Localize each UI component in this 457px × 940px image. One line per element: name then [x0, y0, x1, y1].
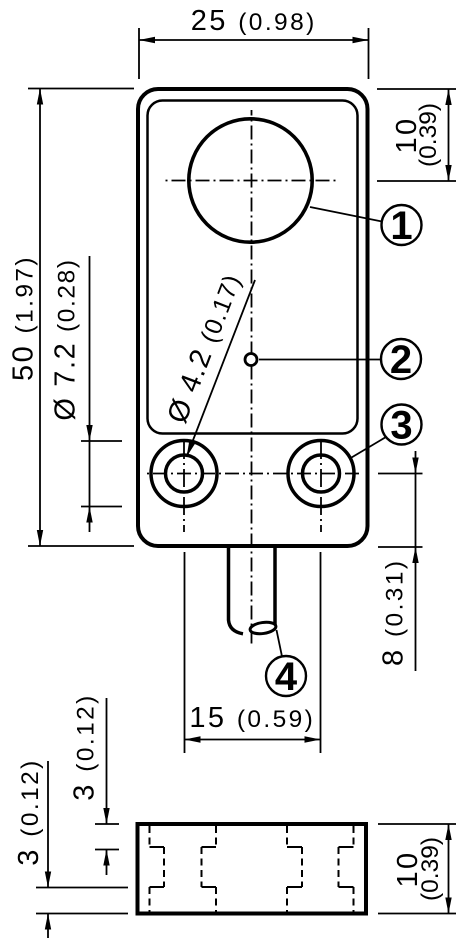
hidden line: right hole outer right lower	[353, 887, 355, 912]
dimension 25 (0.98): extension line left	[138, 28, 140, 79]
hidden line: right hole outer left upper	[286, 826, 288, 847]
svg-text:Ø 4.2 (0.17): Ø 4.2 (0.17)	[161, 269, 247, 427]
svg-text:4: 4	[275, 655, 298, 699]
callout 1: leader	[310, 207, 382, 222]
svg-text:Ø 7.2 (0.28): Ø 7.2 (0.28)	[50, 258, 82, 420]
dimension dia 7.2 (0.28): tick top	[81, 440, 122, 442]
dimension 25 (0.98): arrow right	[353, 37, 369, 43]
hidden line: left hole outer left lower	[149, 887, 151, 912]
dimension 8 (0.31): dimension line	[415, 451, 417, 671]
dimension 3 (0.12) outer: tick top	[36, 887, 128, 889]
dimension 10 (0.39) bottom right: extension line top	[378, 823, 456, 825]
svg-text:8 (0.31): 8 (0.31)	[378, 559, 410, 666]
dimension dia 7.2 (0.28): tick bottom	[81, 506, 122, 508]
dimension 50 (1.97): arrow bottom	[37, 530, 43, 546]
dimension 15 (0.59): extension line left	[184, 552, 186, 753]
dimension 50 (1.97): dimension line	[39, 89, 41, 547]
dimension 3 (0.12) outer: dimension line lower	[47, 914, 49, 939]
hidden line: right hole step bottom right	[339, 886, 354, 888]
callout 4: circle	[266, 656, 306, 696]
hidden line: left hole outer left upper	[149, 826, 151, 847]
dimension 10 (0.39) bottom right: arrow bottom	[445, 898, 451, 914]
side view body rectangle	[138, 824, 367, 914]
dimension 3 (0.12) outer: tick bottom	[36, 913, 128, 915]
hidden line: left hole step bottom right	[202, 886, 217, 888]
centerline vertical (left hole)	[183, 441, 185, 532]
callout 2: leader	[259, 359, 381, 361]
label dia 4.2 (0.17): leader line	[187, 280, 256, 457]
svg-text:50 (1.97): 50 (1.97)	[8, 255, 40, 381]
dimension 15 (0.59): dimension line	[185, 739, 321, 741]
dimension 8 (0.31): tick bottom	[378, 546, 423, 548]
dimension 15 (0.59): arrow right	[305, 736, 321, 742]
hidden line: left hole step top right	[202, 846, 217, 848]
hidden line: right hole outer right upper	[353, 826, 355, 847]
hidden line: right hole step bottom left	[287, 886, 302, 888]
dimension 10 (0.39) top right: arrow bottom	[445, 165, 451, 181]
dimension 10 (0.39) top right: dimension line	[448, 89, 450, 181]
body inner outline	[148, 101, 358, 434]
hidden line: left hole outer right lower	[215, 887, 217, 912]
dimension dia 7.2 (0.28): dimension line upper	[89, 256, 91, 441]
svg-text:(0.39): (0.39)	[415, 103, 442, 167]
svg-text:(0.39): (0.39)	[417, 837, 444, 901]
dimension 10 (0.39) top right: extension line bottom	[377, 180, 456, 182]
dimension 25 (0.98): dimension line	[139, 39, 369, 41]
hidden line: left hole step bottom left	[150, 886, 165, 888]
dimension 3 (0.12) inner: tick top	[95, 823, 119, 825]
dimension 10 (0.39) top right: extension line top	[377, 88, 456, 90]
hidden line: right hole outer left lower	[286, 887, 288, 912]
callout 3: leader	[349, 437, 386, 459]
sensing face circle	[189, 119, 312, 242]
cable end ellipse	[249, 621, 276, 636]
svg-text:3: 3	[390, 404, 412, 448]
dimension dia 7.2 (0.28): arrow down	[86, 425, 92, 441]
LED hole (small circle)	[245, 354, 257, 366]
dimension 10 (0.39) bottom right: arrow top	[445, 824, 451, 840]
svg-text:25 (0.98): 25 (0.98)	[191, 5, 317, 37]
hidden line: left hole outer right upper	[215, 826, 217, 847]
callout 2: circle	[381, 339, 421, 379]
dimension 3 (0.12) inner: dimension line lower	[106, 850, 108, 876]
dimension 3 (0.12) outer: arrow down	[45, 872, 51, 888]
hidden line: right hole step top left	[287, 846, 302, 848]
centerline horizontal (mounting holes)	[143, 473, 363, 475]
dimension 50 (1.97): extension line top	[28, 88, 134, 90]
body outline (outer)	[138, 89, 368, 546]
dimension 15 (0.59): arrow left	[185, 736, 201, 742]
hidden line: left hole inner left	[163, 847, 165, 887]
dimension 3 (0.12) inner: tick bottom	[95, 849, 119, 851]
svg-text:3 (0.12): 3 (0.12)	[13, 758, 45, 865]
dimension 25 (0.98): arrow left	[139, 37, 155, 43]
cable left edge	[229, 548, 244, 634]
dimension 3 (0.12) inner: dimension line upper	[106, 698, 108, 824]
dimension 10 (0.39) bottom right: extension line bottom	[378, 913, 456, 915]
mounting hole left inner	[166, 455, 203, 492]
svg-text:2: 2	[390, 338, 412, 382]
dimension 50 (1.97): arrow top	[37, 89, 43, 105]
dimension 25 (0.98): extension line right	[368, 28, 370, 79]
cable right edge	[273, 548, 277, 625]
mounting hole right inner	[303, 455, 340, 492]
hidden line: left hole inner right	[201, 847, 203, 887]
centerline vertical (right hole)	[320, 441, 322, 532]
dimension 3 (0.12) inner: arrow down	[103, 808, 109, 824]
svg-text:3 (0.12): 3 (0.12)	[69, 693, 101, 800]
dimension 10 (0.39) bottom right: dimension line	[448, 824, 450, 914]
callout 1: circle	[382, 205, 422, 245]
mounting hole right outer	[288, 441, 354, 507]
centerline horizontal (sensing face circle)	[164, 180, 339, 182]
dimension 8 (0.31): arrow down	[412, 458, 418, 474]
hidden line: right hole inner right	[338, 847, 340, 887]
hidden line: right hole inner left	[301, 847, 303, 887]
svg-text:15 (0.59): 15 (0.59)	[189, 702, 315, 734]
svg-text:1: 1	[390, 204, 412, 248]
callout 4: leader	[277, 630, 283, 656]
label dia 4.2 (0.17): arrowhead	[187, 441, 196, 457]
dimension dia 7.2 (0.28): arrow up	[86, 507, 92, 523]
dimension 3 (0.12) inner: arrow up	[103, 850, 109, 866]
callout 3: circle	[382, 405, 422, 445]
dimension 15 (0.59): extension line right	[320, 552, 322, 753]
dimension 3 (0.12) outer: dimension line upper	[47, 761, 49, 888]
dimension dia 7.2 (0.28): dimension line lower	[89, 441, 91, 532]
mounting hole left outer	[151, 441, 217, 507]
centerline vertical (body axis)	[251, 110, 253, 646]
dimension 3 (0.12) outer: arrow up	[45, 914, 51, 930]
hidden line: right hole step top right	[339, 846, 354, 848]
dimension 8 (0.31): arrow up	[412, 547, 418, 563]
hidden line: left hole step top left	[150, 846, 165, 848]
dimension 50 (1.97): extension line bottom	[28, 545, 134, 547]
dimension 10 (0.39) top right: arrow top	[445, 89, 451, 105]
dimension 8 (0.31): tick top	[378, 473, 423, 475]
